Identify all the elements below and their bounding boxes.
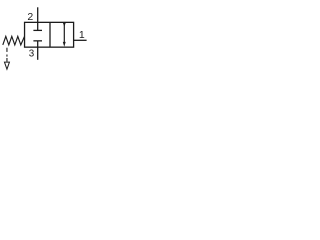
flow path arrow shaft: [63, 24, 65, 44]
flow path arrowhead down: [63, 42, 66, 47]
wire drain line dash 3: [6, 58, 8, 62]
wire drain line dash 1: [6, 48, 8, 52]
valve body outer box: [25, 22, 74, 47]
flow path arrowhead up: [63, 23, 66, 27]
blocked port symbol top (port 2) crossbar: [33, 29, 42, 31]
wire port 1 line: [74, 39, 87, 41]
drain symbol open triangle: [4, 62, 9, 69]
svg-text:1: 1: [79, 29, 85, 41]
spring: [3, 36, 25, 45]
wire port 3 line: [37, 41, 39, 60]
svg-text:3: 3: [29, 48, 35, 59]
wire drain line dash 2: [6, 55, 8, 57]
blocked port symbol bottom (port 3) crossbar: [33, 40, 42, 42]
svg-text:2: 2: [27, 11, 33, 23]
position divider: [49, 22, 51, 47]
wire port 2 line + blocked seat stem: [37, 7, 39, 30]
